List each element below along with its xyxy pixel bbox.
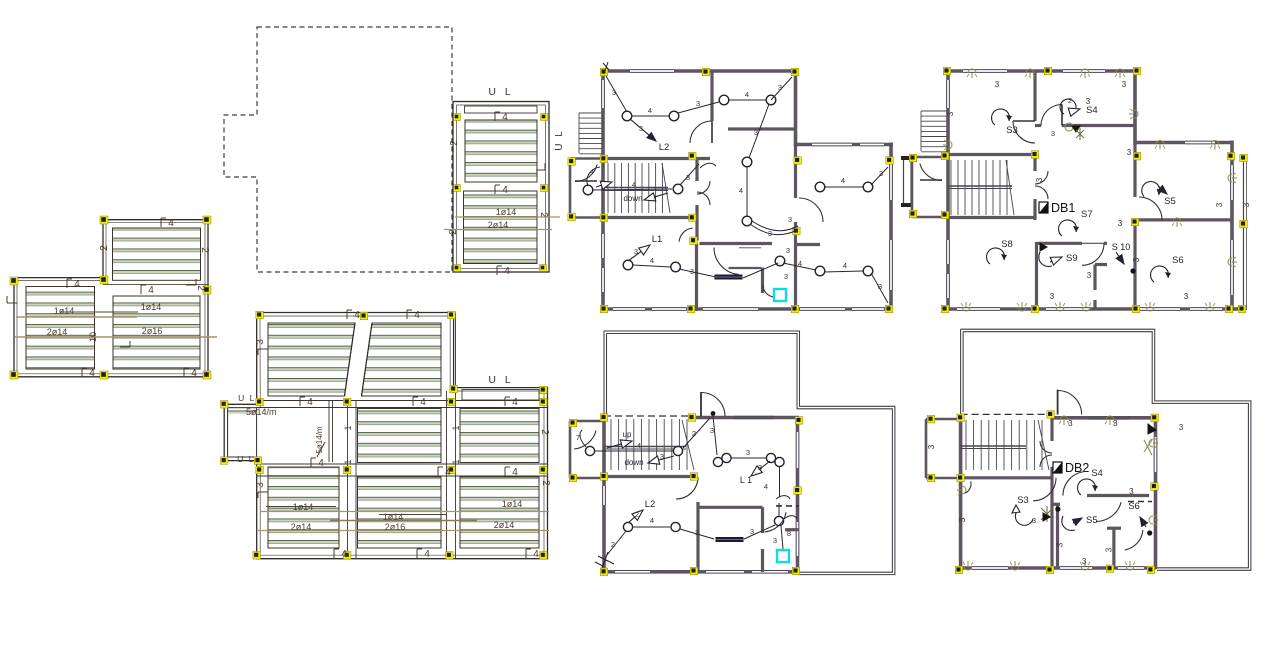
plan H outline left edge bbox=[960, 329, 962, 414]
plan D dim 4 row3-3 bbox=[504, 467, 506, 476]
plan F exterior stair treads bbox=[921, 110, 947, 112]
svg-text:3: 3 bbox=[639, 124, 643, 133]
plan H wall stub y528 bbox=[1107, 527, 1121, 530]
svg-text:3: 3 bbox=[878, 282, 882, 291]
svg-text:3: 3 bbox=[686, 173, 690, 182]
plan H star mark bbox=[1041, 508, 1053, 520]
plan G stair treads bbox=[610, 419, 612, 470]
svg-text:1: 1 bbox=[451, 459, 461, 464]
svg-text:4: 4 bbox=[341, 549, 347, 560]
svg-text:4: 4 bbox=[739, 186, 743, 195]
svg-text:3: 3 bbox=[754, 128, 758, 137]
plan D dim 4 top-1 bbox=[346, 310, 348, 319]
plan F switch S6 bbox=[1151, 266, 1171, 282]
plan G up arrow bbox=[607, 444, 621, 448]
svg-text:2: 2 bbox=[199, 247, 210, 253]
svg-text:4: 4 bbox=[504, 266, 510, 277]
svg-text:3: 3 bbox=[1082, 557, 1087, 566]
plan F left wall bbox=[946, 69, 950, 311]
plan C top strip bbox=[465, 106, 538, 113]
svg-text:L 1: L 1 bbox=[740, 475, 752, 485]
plan F stair bottom wall bbox=[948, 216, 1035, 219]
plan H wall y495 bbox=[1087, 494, 1149, 497]
svg-text:4: 4 bbox=[745, 90, 749, 99]
svg-text:DB1: DB1 bbox=[1051, 201, 1075, 215]
svg-text:1: 1 bbox=[451, 425, 461, 430]
svg-text:3: 3 bbox=[1032, 516, 1036, 525]
plan G outline left edge bbox=[603, 331, 605, 416]
svg-text:5ø14/m: 5ø14/m bbox=[246, 407, 277, 417]
svg-text:4: 4 bbox=[632, 180, 636, 189]
plan G right wall bbox=[796, 419, 800, 573]
plan E down arrow bbox=[655, 193, 668, 197]
svg-text:2: 2 bbox=[635, 510, 639, 519]
svg-text:4: 4 bbox=[148, 285, 154, 296]
svg-text:2: 2 bbox=[692, 429, 696, 438]
plan F room2 door arc bbox=[1041, 105, 1062, 126]
plan F black dot bbox=[1130, 268, 1135, 273]
svg-text:U L: U L bbox=[238, 393, 256, 403]
plan G switch curl near bath bbox=[784, 516, 797, 519]
svg-text:3: 3 bbox=[1215, 202, 1224, 207]
svg-text:4: 4 bbox=[420, 397, 426, 408]
plan D interior wall h1 bbox=[257, 400, 548, 402]
svg-text:S7: S7 bbox=[1081, 209, 1093, 220]
plan D rebar dark underline mid bbox=[379, 514, 447, 516]
svg-text:3: 3 bbox=[1184, 292, 1189, 301]
plan F switch S5 bbox=[1141, 180, 1164, 199]
svg-text:4: 4 bbox=[502, 112, 508, 123]
plan E top wall bbox=[601, 69, 798, 73]
plan G cyan symbol bbox=[777, 550, 789, 562]
plan E wing top wall bbox=[796, 143, 894, 147]
plan E wire to fluor bbox=[679, 269, 716, 277]
plan D hatch bottom-mid bbox=[358, 477, 442, 548]
plan C inner border bbox=[457, 105, 546, 269]
plan E wire vertical 4 bbox=[746, 166, 748, 216]
svg-text:S3: S3 bbox=[1017, 495, 1029, 506]
plan D dim 4 bottom-1 bbox=[333, 549, 335, 558]
plan E wire L2 arrow bbox=[630, 119, 649, 135]
plan E wire to door bbox=[678, 102, 719, 113]
plan D top strip right bbox=[462, 390, 539, 401]
svg-text:S6: S6 bbox=[1128, 501, 1140, 512]
svg-text:3: 3 bbox=[750, 527, 754, 536]
plan D section line vertical bbox=[328, 400, 330, 462]
plan E fluorescent lamp bbox=[715, 275, 742, 279]
plan H markers bbox=[927, 415, 935, 423]
plan F hall stub wall 2 bbox=[1033, 199, 1036, 220]
plan G dashed wall segment bbox=[776, 505, 799, 507]
svg-text:2: 2 bbox=[449, 140, 460, 146]
plan H wall v1114 bbox=[1112, 528, 1115, 568]
plan F switch S9 bbox=[1050, 260, 1052, 263]
plan D interior wall v2 bbox=[446, 391, 448, 558]
plan F wing wall v bbox=[1133, 143, 1136, 198]
plan E wing inner wall bbox=[794, 145, 797, 199]
plan F bath stub bbox=[1095, 263, 1107, 266]
svg-text:3: 3 bbox=[946, 111, 955, 116]
svg-text:1ø14: 1ø14 bbox=[293, 502, 314, 512]
plan F porch door leaf and arc bbox=[920, 179, 942, 181]
svg-text:4: 4 bbox=[533, 549, 539, 560]
plan F room2 bottom wall bbox=[1062, 124, 1135, 127]
plan D rebar tan line 2 bbox=[258, 530, 549, 532]
svg-text:3: 3 bbox=[768, 229, 772, 238]
plan F stair treads bbox=[950, 160, 952, 215]
plan E bottom wall bbox=[601, 307, 893, 311]
plan H right wall bbox=[1154, 414, 1158, 569]
plan H hall stub walls bbox=[1050, 418, 1053, 441]
plan F right wall main bbox=[1133, 69, 1137, 145]
plan C dim 4 top bbox=[494, 112, 496, 121]
plan E bath walls bbox=[695, 244, 698, 312]
plan F wall lamp right bbox=[1129, 109, 1138, 119]
svg-text:3: 3 bbox=[1087, 271, 1092, 280]
plan E cyan symbol bbox=[774, 289, 786, 301]
plan G bath light bbox=[774, 516, 783, 525]
plan F hall stub wall bbox=[1033, 155, 1036, 172]
svg-text:3: 3 bbox=[660, 452, 664, 461]
plan E hall door arc bbox=[714, 248, 739, 275]
plan F porch walls bbox=[911, 157, 914, 215]
plan H switch S4 bbox=[1078, 479, 1098, 495]
plan D hatch mid-left bbox=[358, 409, 442, 463]
plan D stair slash mark bbox=[317, 442, 325, 457]
plan F left window bbox=[947, 80, 949, 108]
plan E interior wall v712 bbox=[710, 71, 713, 121]
plan G room wires bbox=[633, 526, 670, 528]
plan E L1 arrow bbox=[628, 251, 641, 261]
svg-text:2: 2 bbox=[540, 480, 551, 486]
plan F DB1 symbol bbox=[1039, 202, 1048, 213]
svg-text:2: 2 bbox=[539, 429, 550, 435]
plan G bottom windows bbox=[615, 571, 650, 573]
plan H bottom windows bbox=[972, 567, 1008, 569]
plan G balcony door arc bbox=[574, 431, 596, 449]
svg-text:3: 3 bbox=[612, 88, 616, 97]
svg-text:2ø16: 2ø16 bbox=[142, 326, 163, 336]
svg-text:U L: U L bbox=[488, 374, 513, 386]
svg-text:3: 3 bbox=[1179, 423, 1184, 432]
plan D dim 4 row2-2 bbox=[412, 397, 414, 406]
plan E swoosh wires bbox=[750, 224, 797, 235]
svg-text:S4: S4 bbox=[1091, 468, 1103, 479]
svg-text:3: 3 bbox=[1127, 148, 1132, 157]
plan D dim 4 row2-3 bbox=[504, 397, 506, 406]
svg-text:U L: U L bbox=[554, 129, 565, 151]
plan H door arc bottom-right bbox=[1125, 530, 1143, 550]
svg-text:4: 4 bbox=[89, 368, 95, 379]
plan G room lights bbox=[623, 522, 632, 531]
plan D hatch top-right bbox=[362, 323, 442, 396]
plan D left wing border bbox=[228, 408, 257, 457]
plan A rebar line tan 1 bbox=[16, 316, 137, 318]
plan G L2 arrow bbox=[629, 517, 635, 522]
svg-text:S4: S4 bbox=[1086, 105, 1098, 116]
plan E left wall window bbox=[602, 80, 604, 108]
svg-text:3: 3 bbox=[1122, 80, 1127, 89]
plan H left wall bbox=[959, 418, 963, 569]
svg-text:4: 4 bbox=[764, 482, 768, 491]
plan G roof outline bbox=[604, 331, 895, 575]
svg-text:4: 4 bbox=[445, 467, 451, 478]
plan G dashed stair opening bbox=[604, 415, 696, 417]
plan G L1 arrow bbox=[760, 461, 770, 469]
svg-text:4: 4 bbox=[650, 256, 654, 265]
plan D outer border bbox=[224, 313, 547, 559]
plan D rebar tan line 1 bbox=[260, 511, 549, 513]
svg-text:2: 2 bbox=[611, 540, 615, 549]
svg-text:S8: S8 bbox=[1001, 239, 1013, 250]
plan G corner switch marks bbox=[598, 556, 614, 564]
svg-text:4: 4 bbox=[512, 397, 518, 408]
plan H switch S5 bbox=[1073, 521, 1074, 524]
plan E exterior stair treads bbox=[579, 112, 602, 114]
plan F bottom windows bbox=[957, 308, 1000, 310]
plan F top wall bbox=[947, 69, 1137, 73]
plan C outer border bbox=[453, 102, 549, 273]
svg-text:3: 3 bbox=[786, 246, 790, 255]
plan A rebar line tan 2 bbox=[15, 336, 217, 338]
plan F markers bbox=[943, 67, 951, 75]
plan E top wall window bbox=[630, 70, 674, 72]
plan E left wall windows lower bbox=[602, 234, 604, 258]
svg-text:8: 8 bbox=[787, 529, 791, 538]
plan F top windows bbox=[963, 70, 1007, 72]
svg-text:3: 3 bbox=[758, 463, 762, 472]
plan G switch curl f bbox=[776, 496, 790, 499]
plan D dim 4 row3-1 bbox=[310, 458, 312, 467]
svg-text:L2: L2 bbox=[645, 499, 656, 510]
plan A bracket right bbox=[186, 284, 196, 286]
svg-text:3: 3 bbox=[746, 448, 750, 457]
plan F bottom wall bbox=[946, 307, 1245, 311]
plan D hatch bottom-left bbox=[268, 467, 339, 548]
svg-text:1: 1 bbox=[343, 459, 353, 464]
svg-text:3: 3 bbox=[695, 528, 699, 537]
plan H wall stub y504 bbox=[1052, 503, 1060, 506]
plan F hall top wall bbox=[1035, 124, 1041, 127]
plan H door arc mid bbox=[1096, 502, 1121, 521]
svg-text:down: down bbox=[624, 458, 643, 467]
svg-text:1: 1 bbox=[343, 425, 353, 430]
plan H roof outline bbox=[961, 329, 1251, 570]
svg-text:3: 3 bbox=[1050, 292, 1055, 301]
svg-text:7: 7 bbox=[576, 433, 580, 442]
plan H dashed wall segment bbox=[1128, 501, 1152, 503]
svg-text:4: 4 bbox=[168, 218, 174, 229]
svg-text:3: 3 bbox=[773, 536, 777, 545]
plan H small arc left bbox=[964, 481, 971, 493]
svg-text:3: 3 bbox=[1113, 419, 1118, 428]
plan E wire fluor-bath bbox=[743, 263, 778, 278]
plan E corridor wall top bbox=[601, 157, 710, 160]
plan A dim 4 bottom-left bbox=[81, 368, 83, 377]
plan F switch S4 bbox=[1060, 99, 1076, 114]
plan E porch walls bbox=[569, 159, 572, 218]
plan G top wall window dark bbox=[734, 416, 774, 420]
plan G wire to fluor bbox=[680, 529, 714, 539]
svg-text:3: 3 bbox=[1118, 219, 1123, 228]
svg-text:3: 3 bbox=[710, 426, 714, 435]
plan E left wall bbox=[601, 69, 605, 311]
plan A bracket left bbox=[7, 302, 17, 304]
svg-text:4: 4 bbox=[841, 176, 845, 185]
svg-text:S5: S5 bbox=[1086, 515, 1098, 526]
plan H black dots bbox=[1055, 507, 1060, 512]
svg-text:4: 4 bbox=[318, 458, 324, 469]
svg-text:3: 3 bbox=[778, 83, 782, 92]
plan H stair treads bbox=[965, 420, 967, 470]
plan E wing top wires bbox=[824, 186, 863, 188]
svg-text:S 10: S 10 bbox=[1112, 242, 1131, 252]
plan E corridor door arc bbox=[679, 228, 693, 242]
plan F room1 door arc bbox=[1013, 121, 1035, 143]
plan D interior wall v1 bbox=[347, 400, 349, 558]
svg-text:L2: L2 bbox=[659, 142, 670, 153]
svg-text:3: 3 bbox=[1105, 547, 1114, 552]
plan E wire diagonal bbox=[749, 104, 769, 158]
svg-text:2: 2 bbox=[1068, 96, 1072, 105]
plan E wire bath cluster bbox=[783, 263, 816, 270]
plan H door arc S3 room bbox=[1033, 478, 1056, 501]
plan A dim 4 mid bbox=[140, 285, 142, 294]
plan A dim 4 lower-left-top bbox=[66, 279, 68, 288]
plan H entrance door leaf and arc bbox=[1057, 390, 1059, 415]
plan G hall wires bbox=[731, 457, 766, 459]
plan A hatch panel top bbox=[113, 228, 201, 280]
plan E corridor wall bottom bbox=[601, 216, 697, 219]
plan G stub wall bbox=[785, 528, 799, 531]
plan H top wall bbox=[1051, 416, 1155, 420]
plan C rebar tan line 1 bbox=[455, 216, 560, 218]
svg-text:4: 4 bbox=[74, 279, 80, 290]
plan F hall double door arcs bbox=[1035, 171, 1048, 184]
svg-text:3: 3 bbox=[1035, 177, 1044, 182]
plan F dark marks near S9 bbox=[1040, 243, 1047, 251]
svg-text:3: 3 bbox=[1051, 129, 1055, 138]
plan E door arc room1 bbox=[690, 121, 711, 143]
svg-text:4: 4 bbox=[502, 185, 508, 196]
plan G top wall bbox=[696, 416, 799, 420]
plan H left wing walls bbox=[925, 419, 928, 478]
plan E wire circle1-2 bbox=[632, 115, 669, 117]
svg-text:3: 3 bbox=[634, 247, 638, 256]
plan F ceiling fan mark bbox=[1065, 123, 1073, 131]
plan G hall light cluster bbox=[713, 457, 722, 466]
svg-text:2: 2 bbox=[99, 245, 110, 251]
plan F wing room bottom wall bbox=[1139, 218, 1232, 221]
plan G right windows bbox=[796, 432, 798, 468]
plan E porch door leaf and arc bbox=[575, 180, 597, 182]
plan H room wall v1052 bbox=[1050, 483, 1053, 568]
svg-text:4: 4 bbox=[191, 368, 197, 379]
plan E switch curl door bbox=[700, 163, 716, 168]
plan A rebar line dark bbox=[60, 311, 138, 313]
plan D inner border bbox=[228, 316, 544, 555]
plan G stair lights bbox=[585, 446, 594, 455]
svg-text:3: 3 bbox=[958, 517, 967, 522]
plan C dim 4 mid bbox=[494, 185, 496, 194]
svg-text:S3: S3 bbox=[1006, 125, 1018, 136]
svg-text:3: 3 bbox=[995, 80, 1000, 89]
plan A seam line bbox=[103, 283, 208, 285]
plan A hatch panel lower-right bbox=[113, 296, 200, 369]
plan H stair bottom wall bbox=[961, 476, 1052, 479]
plan E bottom windows bbox=[613, 308, 645, 310]
plan G bath door arc bbox=[765, 512, 787, 532]
svg-text:U L: U L bbox=[488, 86, 513, 98]
plan E wire top-left bbox=[606, 76, 627, 112]
plan F bottom rooms wall h bbox=[1037, 242, 1083, 245]
section separator E-F bbox=[903, 158, 905, 206]
plan H olive wall marks bbox=[1144, 440, 1152, 455]
svg-text:1ø14: 1ø14 bbox=[54, 306, 75, 316]
plan G wire fluor to bath bbox=[744, 525, 775, 539]
svg-text:4: 4 bbox=[307, 397, 313, 408]
plan E wire circle3-4 bbox=[728, 99, 766, 101]
plan E wire stair right bbox=[680, 164, 699, 185]
plan E stair double door arcs bbox=[697, 181, 710, 194]
plan H right window bbox=[1154, 437, 1156, 472]
svg-text:3: 3 bbox=[1068, 419, 1073, 428]
plan E wire wing bottom bbox=[824, 271, 863, 272]
plan G stair bottom wall bbox=[604, 475, 697, 478]
plan G entrance wire down bbox=[713, 416, 717, 455]
svg-text:4: 4 bbox=[637, 441, 641, 450]
plan E wing right windows bbox=[890, 160, 892, 200]
plan D hatch top-left (stair slant right edge) bbox=[268, 323, 355, 396]
plan D dim 4 row2-1 bbox=[299, 397, 301, 406]
plan E wall y129 bbox=[728, 127, 796, 130]
plan F bottom door arc bbox=[1082, 243, 1104, 265]
plan A dim 4 bottom-right bbox=[183, 368, 185, 377]
plan F wall lamps bbox=[967, 69, 977, 78]
svg-text:4: 4 bbox=[798, 259, 802, 268]
plan H top wall window dark bbox=[1089, 416, 1130, 420]
plan G stair wires bbox=[595, 450, 673, 452]
svg-text:4: 4 bbox=[512, 467, 518, 478]
svg-text:4: 4 bbox=[414, 310, 420, 321]
plan H door arc hall-room bbox=[1063, 472, 1086, 496]
svg-text:3: 3 bbox=[696, 99, 700, 108]
plan E stair treads bbox=[607, 163, 609, 213]
svg-text:3: 3 bbox=[255, 482, 266, 488]
plan G bottom wall bbox=[602, 570, 797, 574]
svg-text:3: 3 bbox=[927, 444, 936, 449]
plan F wing top window bbox=[1185, 141, 1215, 143]
svg-text:L1: L1 bbox=[652, 234, 663, 245]
plan E stair switch curl bbox=[587, 167, 600, 186]
plan E markers bbox=[600, 68, 608, 76]
plan F wing right windows bbox=[1231, 165, 1233, 200]
svg-text:3: 3 bbox=[784, 272, 788, 281]
plan A hatch panel lower-left bbox=[26, 287, 95, 370]
plan F stair top wall bbox=[948, 153, 1035, 156]
plan E wing door arc bbox=[799, 198, 823, 222]
plan D dim 4 bottom-2 bbox=[416, 549, 418, 558]
plan D interior wall h2 bbox=[257, 463, 548, 465]
plan C dim 4 bottom bbox=[496, 266, 498, 275]
plan E wire wing corner bbox=[871, 273, 888, 303]
plan H hall double door arcs bbox=[1040, 441, 1052, 453]
plan A inner border bbox=[17, 223, 205, 374]
svg-text:S5: S5 bbox=[1164, 196, 1176, 207]
plan H switch S3 bbox=[1015, 510, 1033, 525]
svg-text:4: 4 bbox=[650, 516, 654, 525]
plan D dim 4 top-2 bbox=[406, 310, 408, 319]
